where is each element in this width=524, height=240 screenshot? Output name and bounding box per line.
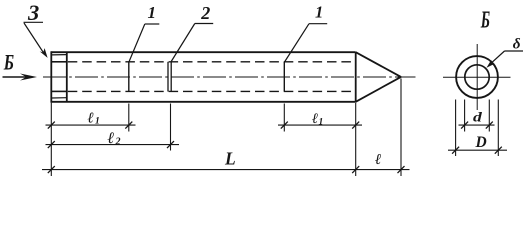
svg-text:ℓ: ℓ xyxy=(107,130,115,147)
svg-text:1: 1 xyxy=(315,3,323,22)
dimension line l1 right xyxy=(278,124,362,126)
svg-text:1: 1 xyxy=(319,118,324,128)
pile body outline (tube top edge) xyxy=(51,51,355,53)
extension line at pile left face xyxy=(50,103,52,176)
extension line at joint 1b xyxy=(283,104,285,132)
svg-text:2: 2 xyxy=(200,3,210,23)
svg-text:1: 1 xyxy=(148,3,157,22)
svg-text:2: 2 xyxy=(115,137,121,148)
head band bottom section top line xyxy=(51,90,67,92)
svg-text:ℓ: ℓ xyxy=(88,111,94,127)
svg-text:Б: Б xyxy=(3,49,14,74)
leader of label 2 xyxy=(195,23,213,25)
svg-text:L: L xyxy=(224,149,236,169)
joint 1 (first, weld seam) xyxy=(128,62,130,92)
extension line at joint 1a xyxy=(128,104,130,132)
dimension line l1 left xyxy=(46,124,136,126)
view arrow Б (left) xyxy=(3,76,27,78)
pile head left face xyxy=(50,51,52,102)
delta leader xyxy=(505,50,524,52)
svg-text:ℓ: ℓ xyxy=(312,111,318,127)
section circle outer D xyxy=(456,56,498,98)
pile body outline (tube bottom edge) xyxy=(51,101,355,103)
head band right edge xyxy=(66,52,68,102)
svg-text:1: 1 xyxy=(95,117,100,127)
cone base vertical xyxy=(355,52,357,102)
centerline of pile (dash-dot) xyxy=(43,76,416,78)
joint 1 (second, weld seam) xyxy=(283,62,285,92)
svg-text:3: 3 xyxy=(27,0,39,25)
head band top section inner line xyxy=(52,54,67,56)
circle vertical centerline xyxy=(476,44,478,110)
svg-text:D: D xyxy=(475,134,487,151)
svg-text:δ: δ xyxy=(513,37,521,53)
extension line at joint 2 xyxy=(170,104,172,151)
joint 2 (double seam) xyxy=(167,62,169,92)
svg-text:Б: Б xyxy=(480,7,490,33)
cone bottom slant xyxy=(356,77,401,102)
extension line at cone apex xyxy=(400,79,402,177)
leader of label 3 xyxy=(24,21,44,23)
leader of label 1 first xyxy=(145,23,160,25)
dimension line L and l xyxy=(42,169,410,171)
dimension line d xyxy=(459,124,495,126)
leader of label 1 second xyxy=(309,23,327,25)
head band bottom section inner line xyxy=(52,97,67,99)
section circle inner d xyxy=(465,65,489,89)
svg-text:d: d xyxy=(473,111,483,126)
extension lines for d xyxy=(464,100,466,132)
extension line at cone base xyxy=(355,103,357,176)
dimension line D xyxy=(448,149,507,151)
cone top slant xyxy=(356,52,401,77)
hidden inner wall top (dashed) xyxy=(68,61,356,63)
svg-text:ℓ: ℓ xyxy=(375,152,381,168)
hidden inner wall bottom (dashed) xyxy=(68,90,356,92)
extension lines for D xyxy=(455,100,457,157)
dimension line l2 xyxy=(46,144,180,146)
circle horizontal centerline xyxy=(443,76,511,78)
head band top section bottom line xyxy=(51,61,67,63)
